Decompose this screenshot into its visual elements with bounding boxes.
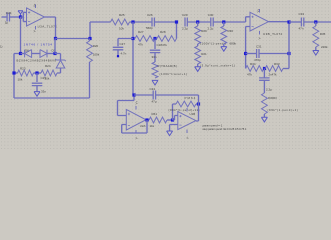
svg-text:100k: 100k: [93, 53, 100, 57]
wire long vertical: [132, 22, 134, 95]
wire: [34, 72, 42, 74]
wire: [154, 39, 156, 50]
wire to R25: [56, 22, 111, 39]
wire feedback via C31 node to R34: [246, 27, 250, 69]
svg-text:33n: 33n: [152, 55, 157, 59]
svg-text:R23: R23: [20, 67, 26, 71]
node input junction: [19, 15, 22, 18]
svg-text:BZX84C2VABZX84B6V8: BZX84C2VABZX84B6V8: [17, 59, 57, 63]
capacitor C33: [301, 18, 303, 27]
node R30 top: [222, 20, 225, 23]
svg-text:C34: C34: [150, 87, 156, 91]
svg-text:10k: 10k: [18, 78, 23, 82]
svg-text:V-: V-: [134, 137, 138, 140]
wire: [134, 94, 153, 96]
svg-text:C33: C33: [299, 12, 305, 16]
resistor R21: [195, 46, 201, 64]
wire: [197, 22, 199, 46]
resistor R31: [152, 62, 158, 78]
capacitor C29: [185, 18, 187, 27]
svg-text:C30: C30: [208, 13, 214, 17]
capacitor C26: [152, 18, 154, 27]
svg-text:{3.9µ*sunt_make=1}: {3.9µ*sunt_make=1}: [200, 64, 235, 68]
svg-text:R33: R33: [274, 62, 280, 66]
wire U2 feedback: [122, 120, 147, 133]
wire: [263, 69, 265, 78]
svg-text:47µ: 47µ: [152, 100, 157, 104]
svg-text:C27: C27: [120, 42, 126, 46]
resistor R34: [246, 66, 264, 72]
wire: [263, 114, 265, 117]
op-amp U1B: [178, 108, 196, 133]
svg-text:.step param pend: list 0 0.25: .step param pend: list 0 0.25 0.5 0.75 1: [202, 127, 247, 131]
node R23/R24: [35, 71, 38, 74]
svg-text:47k: 47k: [138, 43, 143, 47]
capacitor C24: [7, 13, 9, 22]
ground: [152, 80, 158, 85]
svg-text:U3B_TL072: U3B_TL072: [263, 32, 283, 36]
svg-text:{99k*[1-pend]+1k}: {99k*[1-pend]+1k}: [169, 108, 201, 112]
wire feedback down: [20, 17, 22, 54]
node C31 left: [244, 52, 247, 55]
svg-text:U2A: U2A: [140, 124, 146, 128]
diode D7: [40, 50, 47, 58]
svg-text:R(TRAAR(B): R(TRAAR(B): [158, 64, 178, 68]
resistor R23: [18, 70, 34, 76]
wire: [14, 72, 18, 74]
wire: [154, 21, 176, 23]
resistor R33: [265, 66, 283, 72]
node C34 left: [132, 93, 135, 96]
potentiometer PM64: [176, 101, 196, 107]
open end C27: [117, 55, 119, 57]
svg-text:220k: 220k: [321, 45, 328, 49]
ground: [195, 67, 201, 72]
node C29 left: [175, 20, 178, 23]
svg-text:R27: R27: [138, 30, 144, 34]
wire clipper to output: [54, 39, 56, 54]
wire to edge: [304, 21, 331, 23]
node R23 left: [12, 71, 15, 74]
wire to pot: [173, 104, 177, 120]
svg-text:C25: C25: [41, 76, 47, 80]
wire: [289, 21, 301, 23]
svg-text:1N746 / 1N754: 1N746 / 1N754: [24, 43, 53, 47]
resistor R35: [313, 26, 319, 47]
ground: [221, 47, 227, 52]
wire to + input: [246, 17, 250, 22]
svg-text:C2847k: C2847k: [157, 43, 168, 47]
svg-text:R29: R29: [201, 29, 207, 33]
svg-text:{100k*travel+1}: {100k*travel+1}: [160, 72, 188, 76]
svg-text:V-: V-: [185, 136, 189, 139]
wire U2 output: [146, 119, 149, 121]
svg-text:V-: V-: [32, 30, 36, 33]
capacitor C28: [150, 50, 161, 52]
svg-text:C24: C24: [6, 11, 12, 15]
svg-text:2.2µ: 2.2µ: [266, 88, 272, 92]
svg-text:V+: V+: [32, 3, 36, 7]
svg-text:C29: C29: [182, 13, 188, 17]
svg-text:4.7n: 4.7n: [121, 52, 127, 56]
resistor R36: [262, 93, 268, 114]
svg-text:2x47k: 2x47k: [269, 73, 278, 77]
op-amp U3A: [27, 4, 45, 29]
resistor R27: [135, 36, 155, 42]
svg-text:R20: R20: [93, 44, 99, 48]
svg-text:R28: R28: [160, 30, 166, 34]
wire op-amp U3A inputs: [21, 12, 27, 21]
wire: [197, 64, 199, 67]
ground: [313, 51, 319, 56]
svg-text:1): 1): [0, 44, 3, 48]
wire: [89, 39, 91, 42]
svg-text:V+: V+: [134, 101, 138, 105]
resistor R30: [221, 26, 227, 44]
capacitor C27: [113, 47, 124, 50]
wire: [10, 16, 21, 18]
wire - input jog: [173, 116, 178, 121]
node R20 top: [88, 37, 91, 40]
svg-text:560p: 560p: [146, 26, 153, 30]
capacitor C31: [257, 49, 259, 58]
wire to C27: [118, 39, 133, 47]
wire: [21, 53, 25, 55]
wire + input to ground: [170, 125, 178, 131]
node clipper left: [19, 52, 22, 55]
wire U3B output: [269, 21, 290, 23]
wire to D8: [55, 54, 61, 61]
wire: [246, 53, 257, 55]
svg-text:U3A_TL072: U3A_TL072: [38, 24, 58, 28]
capacitor C32: [259, 78, 270, 80]
wire: [36, 73, 38, 82]
svg-text:.param pend = 1: .param pend = 1: [202, 123, 223, 127]
svg-text:R30: R30: [228, 29, 234, 33]
resistor R28: [157, 36, 176, 42]
wire: [263, 81, 265, 94]
node U1B - input: [171, 118, 174, 121]
wire feedback to output: [196, 95, 199, 121]
op-amp U2: [126, 106, 146, 134]
wire: [156, 94, 199, 96]
node R29 top: [196, 20, 199, 23]
wire: [187, 21, 210, 23]
svg-text:{99k*(1-pend)+1}: {99k*(1-pend)+1}: [268, 108, 299, 112]
svg-text:R34: R34: [250, 62, 256, 66]
svg-text:R61: R61: [152, 112, 158, 116]
wire: [167, 119, 173, 121]
svg-text:47n: 47n: [299, 26, 304, 30]
wire: [196, 103, 199, 105]
wire: [315, 22, 317, 50]
svg-text:33n: 33n: [41, 89, 46, 93]
node R34/R33: [263, 67, 266, 70]
capacitor C25: [32, 83, 43, 85]
wire output column: [288, 22, 290, 69]
ground: [261, 117, 267, 122]
svg-text:R30R3: R30R3: [268, 96, 277, 100]
svg-text:D6: D6: [25, 48, 29, 52]
svg-text:680k: 680k: [230, 41, 237, 45]
wire C27 stub: [117, 50, 119, 56]
resistor R20: [87, 41, 93, 62]
wire left branch: [14, 54, 21, 99]
node R27 left: [131, 37, 134, 40]
ground: [167, 131, 173, 136]
svg-text:10k: 10k: [119, 26, 124, 30]
svg-text:V-: V-: [257, 37, 261, 40]
wire buffer input: [118, 95, 135, 116]
wire: [213, 21, 245, 23]
svg-text:R21: R21: [201, 52, 207, 56]
svg-text:R24: R24: [45, 64, 51, 68]
wire op-amp U3A output: [45, 17, 56, 39]
svg-text:R25: R25: [119, 13, 125, 17]
wire: [36, 86, 38, 92]
wire input: [2, 16, 8, 18]
node output junction: [54, 37, 57, 40]
svg-text:U1B: U1B: [190, 112, 196, 116]
node clipper right: [53, 52, 56, 55]
node C31 right: [287, 52, 290, 55]
node R25 right: [131, 20, 134, 23]
wire: [154, 53, 156, 62]
capacitor C34: [153, 91, 155, 100]
zener diode D8: [55, 59, 65, 68]
svg-text:2.2µ: 2.2µ: [182, 26, 188, 30]
op-amp U3B: [250, 9, 269, 35]
diode D6: [25, 50, 32, 58]
node R27/R28: [153, 37, 156, 40]
wire R28 up: [176, 22, 178, 39]
svg-text:47k: 47k: [247, 72, 252, 76]
wire D8 to R24: [57, 68, 61, 73]
ground: [34, 92, 40, 97]
resistor R24: [41, 70, 57, 76]
wire: [223, 22, 225, 46]
svg-text:1µ: 1µ: [5, 21, 9, 25]
svg-text:11k: 11k: [150, 124, 155, 128]
wire: [47, 53, 55, 55]
node pot right: [197, 102, 200, 105]
wire: [130, 21, 153, 23]
svg-text:PM64: PM64: [185, 96, 197, 100]
net flag IN: [18, 11, 23, 17]
svg-text:{100k*(1-pend)}: {100k*(1-pend)}: [200, 41, 226, 45]
resistor R25: [111, 19, 130, 25]
node U3B output: [287, 20, 290, 23]
capacitor C30: [211, 18, 213, 27]
svg-text:V+: V+: [256, 9, 260, 13]
wire: [32, 53, 40, 55]
wire: [283, 68, 289, 70]
svg-text:C31: C31: [256, 45, 262, 49]
wire bottom rail: [14, 62, 90, 98]
svg-text:2.2µ: 2.2µ: [208, 26, 214, 30]
resistor R61: [149, 117, 167, 123]
wire: [259, 53, 289, 55]
svg-text:C26: C26: [147, 13, 153, 17]
node output: [314, 20, 317, 23]
node U2 output: [145, 118, 148, 121]
resistor R29: [195, 26, 201, 44]
svg-text:R35: R35: [320, 32, 326, 36]
